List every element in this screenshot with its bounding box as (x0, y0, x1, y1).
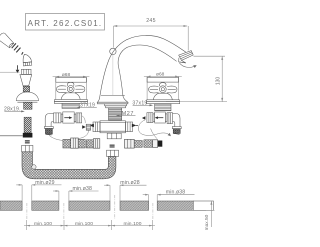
small check valve with arrow (82, 124, 90, 130)
svg-text:ø68: ø68 (156, 72, 165, 78)
hand shower hose (U shape) (22, 152, 116, 179)
dim min.ø29 (hand shower hole) (16, 180, 61, 201)
svg-text:min.ø38: min.ø38 (166, 190, 185, 196)
leader line to holder (0, 71, 20, 73)
label 37x19 right (132, 100, 153, 106)
left valve cross handle (57, 82, 85, 92)
left valve body (54, 112, 82, 123)
svg-text:28x19.: 28x19. (4, 107, 21, 113)
flex hose B (125, 139, 163, 148)
right elbow male thread (173, 129, 180, 134)
leader arc valve to check valve (82, 116, 85, 123)
spout base flange (97, 95, 128, 103)
svg-text:130: 130 (216, 77, 222, 86)
joint tick (22, 52, 23, 54)
spout body (100, 35, 186, 95)
leader arc to right elbow (138, 120, 169, 136)
svg-text:min.100: min.100 (34, 221, 52, 227)
svg-text:min.100: min.100 (123, 221, 141, 227)
svg-text:245: 245 (146, 18, 156, 24)
left valve elbow (44, 113, 53, 128)
hole centerlines (27, 195, 153, 219)
dim min.ø38 (right valve hole) (143, 190, 195, 201)
washers below locknut (110, 145, 115, 146)
label 37x19 left (76, 103, 96, 109)
right valve bell (146, 93, 179, 104)
hose right nut (107, 150, 119, 156)
escutcheon dome (16, 92, 38, 102)
leader arc elbow to hose A (49, 135, 63, 140)
spout centerline (112, 55, 114, 95)
left elbow male thread (45, 129, 52, 135)
leader line to shank nut (0, 135, 23, 137)
leader arc hose B to valve (151, 129, 157, 139)
right valve body (147, 112, 173, 124)
hand shower hose top nut (22, 145, 33, 151)
spout tee body (93, 121, 133, 133)
svg-text:ART. 262.CS01.: ART. 262.CS01. (28, 19, 103, 28)
left valve bell (54, 93, 87, 104)
shank washers (25, 140, 30, 141)
spout threaded shank M27 (109, 108, 122, 120)
svg-text:min.ø29: min.ø29 (35, 180, 54, 186)
label 28x19 (4, 107, 25, 113)
bottom chain dimension min.100 x3 (24, 220, 155, 230)
hand shower shank threaded (24, 117, 31, 133)
svg-text:min.100: min.100 (75, 221, 93, 227)
flex hose A (63, 138, 100, 148)
left valve body flow arrow (64, 116, 72, 119)
dimension 130 (166, 56, 227, 101)
tee left arrow (89, 124, 94, 128)
svg-text:max.50: max.50 (204, 214, 210, 230)
dimension 245 (114, 18, 189, 51)
spout shank flange disc (105, 104, 127, 108)
right valve body flow arrow (155, 116, 164, 119)
insertion arrow (16, 65, 20, 73)
right valve escutcheon threads (155, 104, 171, 111)
leader arrow at right valve body (142, 116, 146, 119)
tee right arrow (132, 124, 137, 128)
dim min.ø38 (left valve hole) (53, 186, 99, 201)
dim min.ø28 (spout hole) (104, 180, 146, 201)
left valve dimension ø68 (53, 72, 90, 100)
label M27 (116, 111, 136, 117)
deck cross-section (0, 201, 213, 210)
right valve cross handle (149, 83, 177, 93)
swivel arrow under spout tip (179, 63, 196, 68)
svg-text:min.ø38: min.ø38 (73, 186, 92, 192)
svg-text:M27: M27 (122, 111, 135, 117)
dim max.50 (deck thickness) (204, 201, 215, 230)
svg-text:ø68: ø68 (62, 72, 71, 78)
spout outlet tip (179, 51, 194, 63)
hand shower ferrule rings (12, 43, 21, 52)
hand shower handle (0, 33, 14, 48)
shank locknut below tee (107, 133, 121, 139)
right valve handle top flange (147, 78, 179, 83)
holder threaded rod (23, 86, 29, 92)
title box ART. 262.CS01. (26, 14, 105, 31)
right valve elbow (172, 113, 181, 128)
spout top circle (110, 48, 116, 54)
right valve dimension ø68 (144, 72, 182, 100)
dome threaded column (24, 102, 32, 109)
left valve escutcheon threads 37x19 (62, 103, 79, 108)
shank nut dark (23, 133, 33, 138)
hand shower holder (20, 69, 32, 86)
svg-text:min.ø28: min.ø28 (120, 180, 139, 186)
left valve handle top flange (56, 78, 87, 83)
leader arc check valve to hose A (77, 130, 89, 139)
hand shower head (23, 54, 32, 66)
